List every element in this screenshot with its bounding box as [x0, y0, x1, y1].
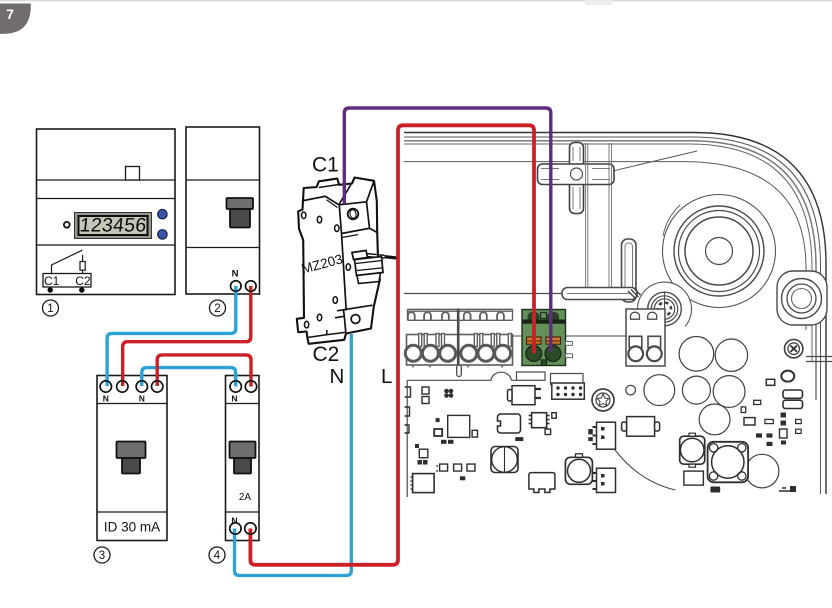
bracket bar horizontal	[562, 288, 637, 300]
wire L breaker Q1 to RCD F1	[123, 286, 251, 386]
bracket slot vertical	[622, 239, 637, 302]
DIN cross center hole	[571, 168, 583, 180]
capacitor pair right	[783, 390, 803, 398]
screw boss torx	[638, 282, 692, 326]
speaker ring outer	[674, 206, 764, 296]
meter M1 terminal dot C2	[79, 287, 84, 292]
can component C5	[565, 454, 592, 485]
dark component small	[766, 379, 774, 385]
small dark chip	[434, 429, 442, 436]
breaker Q1 terminal N	[231, 281, 242, 292]
contactor K1 body side face	[297, 178, 380, 344]
breaker Q2 toggle head	[230, 442, 256, 459]
contactor collar slope	[327, 200, 338, 208]
rail standoff line A	[586, 143, 588, 287]
connector J3	[551, 374, 584, 385]
DIN cross inner lines	[541, 147, 610, 209]
two-pad passives trio	[436, 464, 475, 471]
svg-text:N: N	[103, 394, 109, 404]
contactor bottom terminal box	[335, 305, 373, 332]
RCD F1 terminal 2	[117, 381, 128, 392]
svg-text:N: N	[139, 394, 145, 404]
connector CN1 with clip	[506, 385, 508, 387]
RCD F1 terminal 3	[136, 381, 147, 392]
breaker Q2 panel lines	[226, 404, 260, 513]
breaker Q1 toggle head	[227, 198, 254, 209]
screw boss S2	[592, 389, 614, 411]
svg-text:C2: C2	[75, 274, 91, 288]
SOIC U4	[529, 413, 550, 428]
terminal ring overdraw F1 3	[136, 381, 147, 392]
faint page top edge	[0, 0, 832, 1]
svg-text:1: 1	[47, 303, 53, 315]
curved wire trace	[615, 450, 676, 490]
speaker ring mid	[679, 211, 760, 292]
terminal clamp posts	[419, 334, 512, 347]
terminal strip upper clamps	[408, 309, 513, 320]
speaker center dome	[706, 238, 733, 265]
contactor plateau front edge	[304, 196, 339, 205]
svg-text:N: N	[330, 365, 345, 388]
wire L breaker Q2 to PCB	[250, 125, 534, 565]
housing corner chamfer	[600, 151, 697, 174]
RCD F1 terminal 4	[152, 381, 163, 392]
contactor skirt line	[307, 330, 346, 338]
smd near U4	[552, 413, 557, 419]
svg-text:7: 7	[6, 6, 14, 22]
meter M1 button up	[158, 210, 167, 219]
breaker Q2 terminal top N	[230, 381, 241, 392]
terminal strip lower block	[407, 335, 513, 366]
meter M1 terminal dot C1	[48, 287, 53, 292]
terminal screws lower row	[405, 345, 510, 361]
callout 4	[209, 547, 225, 563]
speaker ring inner	[685, 217, 753, 285]
energy meter M1 body	[37, 129, 176, 295]
meter M1 series element	[80, 262, 85, 271]
bracket slot inner	[625, 243, 633, 298]
wire N breaker Q1 to RCD F1	[107, 286, 236, 386]
bottom cut marks	[710, 487, 795, 493]
meter M1 switch lever	[52, 250, 83, 273]
RCD F1 body	[97, 376, 167, 541]
clip component bottom	[529, 473, 555, 493]
svg-text:C1: C1	[312, 154, 339, 177]
small hole	[626, 385, 636, 395]
svg-text:ID 30 mA: ID 30 mA	[104, 520, 160, 535]
meter M1 LCD frame	[75, 213, 152, 239]
svg-text:2: 2	[214, 303, 220, 315]
strip feet	[413, 365, 502, 368]
terminal strip center divider	[457, 309, 460, 366]
contactor toggle arm	[366, 254, 385, 259]
small ICs and passives left column	[405, 387, 430, 458]
oval ring component	[781, 371, 794, 382]
RCD F1 toggle head	[117, 442, 146, 459]
connector CN3 3pin	[593, 468, 616, 492]
contactor toggle bracket	[352, 251, 368, 260]
round can K2	[680, 433, 705, 467]
relay K1	[508, 386, 542, 405]
breaker Q1 body	[186, 127, 260, 294]
meter M1 button down	[158, 230, 167, 239]
breaker Q1 panel lines	[186, 180, 260, 248]
smd bits center right	[741, 400, 773, 446]
terminal ring overdraw F1 4	[152, 381, 163, 392]
terminal ring overdraw Q2 topN	[230, 381, 241, 392]
contactor side holes	[302, 212, 351, 328]
smd column right	[780, 413, 802, 493]
wire C1 PCB to contactor	[344, 108, 551, 352]
terminal ring overdraw F1 2	[117, 381, 128, 392]
DIN cross mount vertical	[570, 143, 584, 214]
svg-text:L: L	[381, 365, 392, 388]
contactor latch lower wedge	[357, 273, 381, 284]
contactor actuator pin	[385, 257, 397, 258]
contactor clip tab base	[319, 185, 338, 188]
meter M1 top notch	[126, 167, 140, 181]
svg-text:C1: C1	[44, 274, 60, 288]
bracket bar inner line	[567, 293, 630, 295]
meter M1 element leads	[82, 255, 84, 273]
contactor main ridge	[339, 206, 346, 311]
board edge dome	[491, 372, 511, 380]
contactor top box bottom edges	[342, 202, 378, 234]
terminal ring overdraw Q1 L	[246, 281, 257, 292]
terminal strip upper rail	[408, 309, 513, 320]
speaker boss outer circle	[663, 195, 776, 308]
phillips screw right	[785, 340, 803, 358]
contactor bottom screw	[351, 315, 360, 324]
callout 3	[94, 547, 110, 563]
charger housing wall line 3	[404, 141, 816, 400]
terminal ring overdraw Q2 botN	[230, 523, 241, 534]
speaker outer arc trim	[663, 205, 680, 236]
svg-text:N: N	[232, 269, 239, 280]
green terminal block J1	[522, 310, 573, 366]
PCB shelf line	[404, 293, 562, 295]
housing right wall tab	[806, 357, 832, 362]
pin header 2x4	[552, 383, 585, 399]
meter M1 pulse output box	[43, 274, 91, 288]
meter M1 panel lines	[37, 180, 176, 245]
svg-text:123456: 123456	[79, 215, 148, 237]
line to green block	[513, 335, 627, 337]
bracket bar end hatch	[628, 289, 641, 298]
DIN cross mount horizontal	[538, 164, 615, 185]
page corner tab 7	[0, 4, 31, 34]
inductor clamp	[498, 414, 521, 433]
cable gland boss	[777, 271, 827, 325]
svg-text:4: 4	[214, 550, 221, 562]
RCD F1 terminal strip line	[97, 404, 167, 513]
contactor top screw	[348, 209, 359, 220]
big can with corner screws	[708, 442, 749, 483]
rail standoff line B	[609, 143, 612, 287]
breaker Q1 toggle stem	[230, 209, 250, 228]
connector under green block	[517, 372, 546, 380]
charger housing wall line 2	[404, 137, 821, 494]
svg-text:N: N	[231, 394, 237, 404]
svg-text:C2: C2	[313, 343, 340, 366]
terminal ring overdraw F1 1	[100, 381, 111, 392]
RCD F1 terminal 1	[100, 381, 111, 392]
divider pin	[457, 365, 462, 377]
housing inner wall line	[404, 162, 806, 330]
svg-text:2A: 2A	[239, 492, 252, 503]
big plastic holes row	[644, 337, 779, 488]
svg-text:3: 3	[99, 550, 105, 562]
charger housing wall line 4	[404, 144, 812, 361]
white rect outline bottom	[684, 471, 704, 485]
relay block left of cans	[622, 417, 660, 437]
clover component	[444, 389, 453, 398]
wire N contactor C2 to breaker Q2	[235, 334, 352, 576]
smd pair right of relay	[588, 429, 593, 434]
callout 1	[43, 300, 59, 316]
contactor latch box	[355, 257, 384, 276]
PCB board edge	[407, 380, 516, 497]
IC U2 square	[448, 415, 470, 437]
breaker Q2 terminal bottom N	[230, 523, 241, 534]
breaker Q2 terminal bottom L	[245, 523, 256, 534]
round inductor L1	[491, 447, 518, 473]
meter M1 LCD screen	[79, 216, 148, 235]
smd bits row	[415, 418, 478, 480]
breaker Q2 terminal top L	[245, 381, 256, 392]
terminal ring overdraw Q1 N	[231, 281, 242, 292]
meter M1 indicator hole	[64, 222, 70, 228]
callout 2	[210, 300, 226, 316]
breaker Q2 body	[226, 376, 260, 541]
terminal ring overdraw Q2 topL	[245, 381, 256, 392]
contactor top face edges	[339, 178, 374, 205]
terminal ring overdraw Q2 botL	[245, 523, 256, 534]
wire N RCD F1 to breaker Q2	[142, 368, 236, 387]
connector CN2 3pin	[593, 422, 616, 449]
white terminal block J2	[626, 309, 665, 366]
wire L RCD F1 to breaker Q2	[157, 355, 251, 387]
contactor mold line	[342, 235, 358, 238]
IC U3 bottom left	[410, 474, 434, 493]
meter M1 LCD digits 123456	[79, 215, 148, 237]
breaker Q2 toggle stem	[234, 458, 251, 474]
breaker Q1 terminal L	[246, 281, 257, 292]
charger housing outer shell	[404, 133, 826, 495]
RCD F1 toggle stem	[122, 458, 140, 474]
